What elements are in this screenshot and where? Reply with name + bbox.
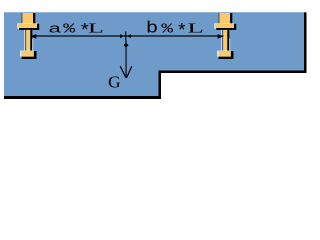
load G top diamond marker — [124, 43, 129, 48]
svg-text:G: G — [108, 73, 120, 92]
load G open arrowhead left arm — [120, 66, 126, 78]
svg-text:a: a — [48, 21, 62, 36]
svg-text:%: % — [161, 22, 174, 37]
panel border bottom-right — [161, 71, 307, 74]
panel border bottom-left — [4, 96, 161, 99]
support A stem — [23, 30, 26, 51]
support B (right pin support) — [214, 13, 236, 59]
label a%*L — [48, 20, 104, 42]
svg-text:*: * — [176, 23, 188, 43]
background panel (blue, stepped shape) — [4, 12, 304, 96]
panel border right — [304, 12, 307, 73]
panel border step — [159, 71, 162, 100]
svg-text:L: L — [88, 20, 104, 35]
svg-text:L: L — [187, 20, 203, 35]
label b%*L — [146, 19, 204, 42]
dimension arrow at support A (points left) — [30, 34, 36, 39]
support A head — [21, 13, 22, 24]
dimension mid tick — [125, 31, 126, 40]
svg-text:%: % — [63, 22, 76, 37]
support A (left pin support) — [17, 13, 39, 59]
dimension mid arrow right (points left) — [127, 34, 130, 38]
load G arrow stem — [126, 41, 127, 78]
support A collar — [17, 23, 19, 29]
load G open arrowhead right arm — [127, 66, 132, 78]
dimension line a (left segment) — [32, 35, 126, 36]
svg-text:b: b — [146, 19, 158, 38]
dimension line b (right segment) — [126, 35, 223, 36]
support A foot — [20, 51, 22, 57]
dimension arrow at support B (points right) — [218, 34, 224, 39]
dimension mid arrow left (points right) — [120, 34, 124, 38]
